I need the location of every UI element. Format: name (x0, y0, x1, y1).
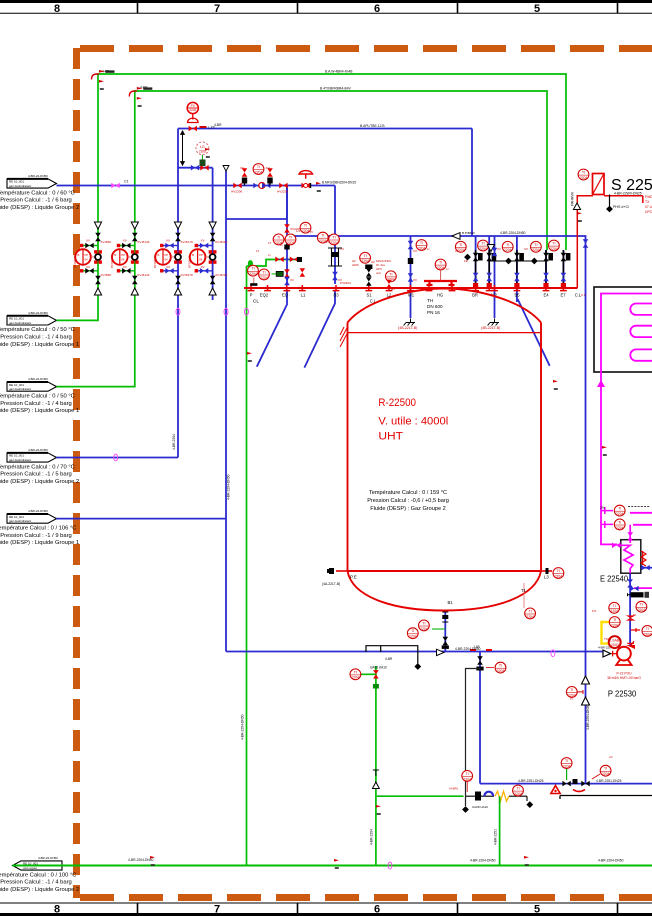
W1 dome anchor (404, 319, 415, 326)
left arrow black on y236 (452, 233, 460, 240)
svg-text:2½: 2½ (600, 506, 605, 510)
mini station bubbles (478, 240, 489, 251)
off-page connector label 3 (0/50C) (7, 382, 57, 391)
red nozzle tees on header (248, 285, 567, 291)
pump instrument bubbles (609, 617, 620, 628)
svg-text:Fluide (DESP) : Gaz Groupe 2: Fluide (DESP) : Gaz Groupe 2 (370, 506, 446, 512)
exchanger red hatch (641, 551, 646, 566)
svg-text:B: B (114, 253, 116, 257)
svg-text:XV: XV (123, 239, 127, 243)
svg-text:Pression Calcul : -1 / 9 barg: Pression Calcul : -1 / 9 barg (0, 533, 72, 539)
magenta lines to right edge (630, 513, 652, 588)
header drop valve set E6 (514, 250, 524, 288)
svg-text:Température Calcul : 0 / 70 °C: Température Calcul : 0 / 70 °C (0, 464, 75, 470)
svg-text:B.P/BFW: B.P/BFW (462, 231, 475, 235)
svg-text:6: 6 (374, 904, 380, 916)
svg-text:FWD: FWD (645, 195, 652, 199)
svg-text:Pression Calcul : -0,6 / +0,5: Pression Calcul : -0,6 / +0,5 barg (367, 498, 449, 504)
svg-text:XV: XV (340, 247, 344, 251)
bubble pair EQ (248, 265, 259, 276)
svg-text:4-BR-22-DN50: 4-BR-22-DN50 (28, 448, 48, 452)
black regulator (475, 792, 481, 801)
pipe blue header y=185.5 (label1 to B3 riser) (57, 186, 336, 285)
svg-text:W1: W1 (408, 293, 415, 298)
pipe green branch y=796 (376, 795, 464, 797)
svg-text:XV-B212: XV-B212 (215, 273, 227, 277)
svg-text:2206: 2206 (189, 108, 196, 112)
svg-text:UA08 UA10: UA08 UA10 (472, 805, 488, 809)
magenta coil in enclosure (601, 294, 652, 384)
filter vent triangle (573, 203, 580, 210)
L1 valve (297, 257, 302, 262)
svg-text:C.L: C.L (581, 293, 586, 297)
T1 thermowell line (523, 583, 525, 608)
double blue valve with spectacle (253, 183, 261, 189)
red riser flag (577, 212, 582, 222)
svg-text:PI: PI (310, 230, 313, 234)
svg-text:gaz deshidratant: gaz deshidratant (9, 519, 31, 523)
svg-text:gaz deshidratant: gaz deshidratant (9, 321, 31, 325)
valve station 3 x=178 (155, 222, 182, 295)
svg-text:c/c: c/c (609, 755, 613, 759)
svg-text:L3: L3 (544, 575, 549, 580)
svg-text:2206: 2206 (352, 263, 359, 267)
pump suction arrow (603, 650, 611, 657)
svg-text:LI: LI (268, 253, 271, 257)
svg-text:P: P (250, 293, 253, 298)
bubble above green branch (462, 771, 473, 782)
svg-text:4-BR-2204-DN50: 4-BR-2204-DN50 (240, 714, 244, 740)
svg-text:S1: S1 (366, 293, 372, 298)
svg-text:XV: XV (201, 239, 205, 243)
pipe green manifold jog (247, 260, 300, 267)
svg-text:V. utile : 4000l: V. utile : 4000l (378, 416, 448, 428)
svg-text:LI: LI (455, 249, 458, 253)
pump red note (607, 672, 641, 681)
svg-text:PN 16: PN 16 (427, 310, 440, 315)
dashed instrument bubble LG (196, 142, 209, 155)
svg-text:PP: PP (165, 253, 169, 257)
pipe blue riser x=178 (to label4) (57, 129, 179, 458)
svg-text:LG: LG (200, 145, 205, 149)
svg-text:LT: LT (268, 241, 271, 245)
top grid numbers 8 7 6 5 (54, 3, 540, 15)
svg-text:XV-B212: XV-B212 (215, 240, 227, 244)
valve station 1 x=98 (75, 222, 102, 295)
pipe blue W1 nozzle line (410, 236, 412, 318)
filter red piping (577, 196, 643, 288)
svg-text:gaz deshidratant: gaz deshidratant (9, 458, 31, 462)
vessel tag text R-22500 (378, 397, 448, 443)
svg-text:04: 04 (199, 258, 203, 262)
vessel bottom dish (348, 571, 542, 611)
vessel max level line (348, 332, 542, 334)
svg-text:TH: TH (427, 298, 433, 303)
svg-text:4-BR: 4-BR (214, 123, 222, 127)
svg-text:4-BR-2204-DN50: 4-BR-2204-DN50 (586, 704, 590, 730)
svg-text:(4-BR): (4-BR) (449, 787, 458, 791)
svg-text:4-BR-2251: 4-BR-2251 (493, 829, 497, 845)
exchanger coil magenta (617, 525, 633, 573)
corner flag green1 (92, 70, 115, 80)
vessel L2 nozzle right (541, 570, 552, 572)
svg-text:XV: XV (86, 265, 90, 269)
svg-text:4-BR-22-DN50: 4-BR-22-DN50 (38, 856, 58, 860)
battery-limit dashed border left (73, 48, 80, 898)
svg-text:Température Calcul : 0 / 50 °C: Température Calcul : 0 / 50 °C (0, 327, 75, 333)
svg-text:EQ: EQ (282, 293, 289, 298)
svg-text:unit: unit (376, 271, 381, 275)
level hatch mark (340, 327, 348, 347)
battery-limit dashed border top (80, 45, 652, 52)
pipe green line 2 (label3 to E4 station) (57, 91, 548, 387)
instrument diagonal lines left of vessel (257, 290, 335, 368)
funnel on drop 491 (487, 245, 494, 252)
svg-text:E 22540: E 22540 (600, 574, 628, 584)
svg-text:04: 04 (85, 258, 89, 262)
svg-text:XV: XV (290, 278, 294, 282)
L2 manual note (376, 259, 391, 275)
extra red text scatter (268, 230, 468, 282)
svg-text:L1: L1 (301, 293, 306, 298)
svg-text:XV-B178: XV-B178 (181, 273, 193, 277)
pipe blue riser x=287 (EQ2) (286, 186, 288, 285)
outlet black valve (443, 637, 449, 645)
svg-text:1/2: 1/2 (296, 229, 301, 233)
svg-text:PP: PP (85, 253, 89, 257)
black tee fitting below exchanger (628, 592, 650, 598)
XV symbols above header (242, 168, 273, 176)
svg-text:4-BR-22-DN50: 4-BR-22-DN50 (28, 509, 48, 513)
W1 riser valves (408, 241, 414, 249)
battery-limit dashed border bottom (80, 894, 652, 901)
black syphon loop under line (366, 646, 418, 664)
svg-text:8: 8 (54, 904, 60, 916)
svg-text:7: 7 (214, 904, 220, 916)
svg-text:gaz deshidratant: gaz deshidratant (9, 387, 31, 391)
svg-text:4-BR-2251-DN25: 4-BR-2251-DN25 (596, 779, 622, 783)
funnel top of x226 riser (223, 166, 229, 172)
svg-text:07.44: 07.44 (645, 205, 652, 209)
control valve on header x=305.7 (299, 171, 313, 189)
svg-text:4-BR-2204-DN50: 4-BR-2204-DN50 (455, 647, 481, 651)
svg-text:Fluide (DESP) : Liquide Groupe: Fluide (DESP) : Liquide Groupe 2 (0, 205, 79, 211)
svg-text:BF09040: BF09040 (188, 255, 192, 268)
pipe green line 1 (label2 to E7 station) (57, 74, 567, 320)
svg-text:PP: PP (199, 253, 203, 257)
svg-text:5: 5 (534, 3, 540, 15)
svg-text:Fluide (DESP) : Liquide Groupe: Fluide (DESP) : Liquide Groupe 1 (0, 408, 79, 414)
magenta ovals (224, 308, 228, 315)
svg-text:XV-B134: XV-B134 (137, 240, 149, 244)
svg-text:LI: LI (280, 243, 283, 247)
svg-text:Pression Calcul : -1 / 4 barg: Pression Calcul : -1 / 4 barg (0, 401, 72, 407)
svg-text:Fluide (DESP) : Liquide Groupe: Fluide (DESP) : Liquide Groupe 2 (0, 887, 79, 893)
svg-text:Pression Calcul : -1 / 4 barg: Pression Calcul : -1 / 4 barg (0, 335, 72, 341)
svg-text:XV-B98: XV-B98 (101, 240, 112, 244)
header drop valve set E4 (543, 250, 553, 288)
pipe green riser x=246.5 (manifold to bottom header) (246, 266, 248, 866)
valve station 4 x=212.6 (190, 222, 217, 295)
blue valve after corner (583, 239, 589, 247)
manhole text TH DN600 PN16 (427, 298, 443, 315)
svg-text:E7: E7 (560, 293, 566, 298)
vessel PE nozzle left (336, 570, 348, 572)
magenta supply line down to E22540 (601, 383, 617, 544)
svg-text:DN 600: DN 600 (427, 304, 443, 309)
HG bubble (435, 259, 446, 270)
enclosure box (tracing panel) (594, 287, 652, 372)
svg-text:XV: XV (497, 247, 501, 251)
svg-text:LI: LI (427, 247, 430, 251)
svg-text:AV: AV (371, 260, 375, 264)
svg-text:8: 8 (54, 3, 60, 15)
svg-text:B.A.W-4BR4-Im4B: B.A.W-4BR4-Im4B (325, 70, 353, 74)
pump P 22530 (612, 641, 635, 665)
svg-text:P.E: P.E (350, 575, 357, 580)
svg-text:4-BR-2204-DN50: 4-BR-2204-DN50 (500, 231, 526, 235)
valve station 2 x=134.8 (112, 222, 139, 295)
svg-text:04: 04 (121, 258, 125, 262)
svg-text:XV: XV (123, 265, 127, 269)
svg-text:36 m3/h HMT=30 barG: 36 m3/h HMT=30 barG (607, 676, 641, 680)
svg-text:XV: XV (86, 239, 90, 243)
svg-text:XV: XV (413, 278, 417, 282)
svg-text:UHT: UHT (378, 431, 403, 443)
magenta down arrow (597, 380, 605, 387)
header drop valve set B5 (486, 250, 496, 288)
svg-text:TI: TI (570, 697, 573, 701)
svg-text:Température Calcul : 0 / 106 °: Température Calcul : 0 / 106 °C (0, 525, 76, 531)
pipe green bottom header y=865.5 (13, 865, 652, 867)
red flag + line label (316, 182, 321, 192)
svg-text:4-BR-2204-DN50: 4-BR-2204-DN50 (598, 859, 624, 863)
svg-text:4-BR-2204-DN50: 4-BR-2204-DN50 (128, 858, 154, 862)
svg-text:(4B-22LT-B): (4B-22LT-B) (398, 326, 417, 330)
svg-text:2540: 2540 (611, 643, 619, 647)
off-page connector label 4 (0/70C) (7, 453, 57, 462)
svg-text:XV-B134: XV-B134 (137, 273, 149, 277)
svg-text:Pression Calcul : -1 / 4 barg: Pression Calcul : -1 / 4 barg (0, 880, 72, 886)
outlet bubbles (419, 620, 430, 631)
tiny line labels (102, 70, 624, 863)
B3 riser fittings (328, 248, 342, 266)
right drop assembly x=480 (477, 656, 483, 664)
small red hook (573, 790, 585, 792)
red valve HV on header (233, 183, 241, 189)
red L marks on main line (470, 649, 492, 651)
svg-text:Fluide (DESP) : Liquide Groupe: Fluide (DESP) : Liquide Groupe 1 (0, 540, 79, 546)
top border band (0, 2, 652, 14)
svg-text:PHS d+Cl: PHS d+Cl (613, 205, 629, 209)
svg-text:TSA: TSA (604, 637, 610, 641)
instrument diagonal right shoulder (518, 299, 550, 366)
filter instrument bubble TX2259 (578, 169, 589, 180)
pipe blue stub y=167.7 (178, 168, 213, 300)
vessel bottom seam line (348, 570, 542, 572)
manhole TH on header (424, 281, 457, 285)
header drop valve set E7 (561, 250, 571, 288)
svg-text:Température Calcul : 0 / 60 °C: Température Calcul : 0 / 60 °C (0, 190, 75, 196)
svg-text:BF09040: BF09040 (153, 255, 157, 268)
pipe red distribution header y=288 (244, 287, 578, 289)
svg-text:4-BR-2204: 4-BR-2204 (172, 434, 176, 450)
dashed label above magenta (628, 506, 650, 508)
svg-text:4-BR-22-DN50: 4-BR-22-DN50 (28, 311, 48, 315)
svg-text:(4B-22LT-B): (4B-22LT-B) (481, 326, 500, 330)
bubble trio B3 (300, 222, 311, 233)
exchanger blue fittings (627, 579, 638, 591)
svg-text:C1: C1 (124, 180, 129, 184)
svg-text:XV: XV (166, 239, 170, 243)
svg-text:BF09040: BF09040 (110, 255, 114, 268)
svg-text:TX: TX (645, 200, 650, 204)
black block valve 1 (242, 178, 247, 184)
pipe blue mini risers to red header (476, 236, 564, 302)
svg-text:HV: HV (391, 287, 395, 291)
svg-text:(4A-22LT-B): (4A-22LT-B) (322, 582, 340, 586)
svg-text:Pression Calcul : -1 / 5 barg: Pression Calcul : -1 / 5 barg (0, 472, 72, 478)
filter drain black line (609, 195, 611, 207)
svg-text:Température Calcul : 0 / 100 °: Température Calcul : 0 / 100 °C (0, 872, 76, 878)
pipe blue vessel outlet B1 (444, 612, 446, 652)
svg-text:B1: B1 (448, 600, 454, 605)
off-page connector label 2 (0/50C) (7, 316, 57, 325)
yellow interlock bracket (602, 622, 613, 644)
svg-text:PP: PP (121, 253, 125, 257)
flag on green riser (247, 352, 252, 362)
svg-text:CL: CL (253, 299, 259, 305)
svg-text:LI: LI (446, 267, 449, 271)
svg-text:B.4TX/BFRBRA-B4V: B.4TX/BFRBRA-B4V (320, 87, 352, 91)
BR bubble + fitting (455, 241, 466, 252)
svg-text:XV-B98: XV-B98 (101, 273, 112, 277)
bubbles near exchanger bottom (609, 602, 620, 613)
svg-text:6: 6 (374, 3, 380, 15)
filter red notes (645, 195, 652, 214)
svg-text:04: 04 (165, 258, 169, 262)
vessel design data text (367, 490, 449, 512)
svg-text:UA08 UA10: UA08 UA10 (370, 666, 387, 670)
svg-text:BF09040: BF09040 (73, 255, 77, 268)
safety triangle red (551, 786, 560, 794)
svg-text:4-BR-2204: 4-BR-2204 (370, 829, 374, 845)
svg-text:4-BR: 4-BR (385, 657, 393, 661)
svg-text:XV-B178: XV-B178 (181, 240, 193, 244)
valves on y=167.7 stub (191, 165, 199, 171)
black utility line below (560, 796, 652, 800)
svg-text:Température Calcul : 0 / 159 °: Température Calcul : 0 / 159 °C (369, 490, 447, 496)
S1 actuated valve (360, 252, 371, 263)
svg-text:Température Calcul : 0 / 50 °C: Température Calcul : 0 / 50 °C (0, 393, 75, 399)
svg-text:Fluide (DESP) : Liquide Groupe: Fluide (DESP) : Liquide Groupe 1 (0, 342, 79, 348)
svg-text:LSAB: LSAB (610, 639, 620, 643)
magenta instrument stubs (601, 507, 613, 528)
svg-text:4-BR-2251-DN25: 4-BR-2251-DN25 (518, 779, 544, 783)
svg-text:B.APL/TBE-12.B: B.APL/TBE-12.B (360, 124, 385, 128)
dimension line black (181, 131, 185, 165)
bottom grid numbers 8 7 6 5 (54, 904, 540, 916)
exchanger E 22540 body (621, 540, 641, 574)
control valve PV on y=128.5 (187, 102, 216, 131)
svg-text:EQ2: EQ2 (260, 293, 269, 298)
M2 riser valve (492, 248, 498, 256)
off-page connector label 1 (0/60C) (7, 179, 57, 188)
svg-text:4-BR-22-DN50: 4-BR-22-DN50 (28, 174, 48, 178)
svg-text:Pression Calcul : -1 / 6 barg: Pression Calcul : -1 / 6 barg (0, 198, 72, 204)
black link line between drops (489, 260, 546, 262)
svg-text:4-BR-22WV-DN25: 4-BR-22WV-DN25 (614, 191, 642, 195)
header drop valve set BR (473, 250, 483, 288)
butterfly valve on pump riser (626, 615, 636, 620)
svg-text:T1: T1 (521, 588, 527, 593)
svg-text:E4: E4 (543, 293, 549, 298)
svg-text:FO: FO (592, 609, 597, 613)
pipe blue exchanger to pump (629, 573, 631, 646)
filter S 2259 body (593, 174, 605, 195)
pipe blue M2 nozzle line (494, 236, 496, 318)
svg-text:B: B (192, 253, 194, 257)
svg-text:4-BR-22-DN50: 4-BR-22-DN50 (28, 377, 48, 381)
svg-text:P 22530: P 22530 (608, 689, 637, 699)
pipe blue line y=128.5 (178, 129, 472, 237)
svg-text:BR: BR (472, 293, 478, 298)
pipe blue header y=236 to long riser x=585.5 (287, 236, 586, 784)
drain valve red on green riser (373, 670, 379, 678)
pipe blue label5 run to main bottom line (57, 171, 605, 652)
svg-text:FE: FE (464, 259, 468, 263)
svg-text:Fluide (DESP) : Liquide Groupe: Fluide (DESP) : Liquide Groupe 2 (0, 479, 79, 485)
check valve near pump (626, 645, 635, 649)
svg-text:4-BR-2204-DN50: 4-BR-2204-DN50 (227, 474, 231, 500)
pipe blue drop x=480 and bottom branch y=783.6 (480, 652, 652, 784)
svg-text:LT: LT (256, 249, 259, 253)
svg-text:gaz deshidratant: gaz deshidratant (9, 184, 31, 188)
green drop tick (499, 796, 501, 803)
riser EQ2 valves (284, 224, 290, 232)
svg-text:7: 7 (214, 3, 220, 15)
flag on magenta riser (602, 446, 607, 456)
C1 marker on header (111, 183, 119, 189)
M2 dome anchor (488, 319, 499, 326)
flow arrows on main line x=585.5 (582, 676, 590, 684)
extra tiny red texts manifold (256, 170, 586, 297)
bottom border band (0, 903, 652, 915)
svg-text:B5: B5 (514, 293, 520, 298)
orange zigzag (495, 791, 509, 801)
extra tiny red texts right side (570, 609, 636, 759)
svg-text:PI: PI (633, 613, 636, 617)
svg-text:PT: PT (326, 240, 330, 244)
svg-text:HV2209: HV2209 (277, 190, 288, 194)
svg-text:XV: XV (524, 247, 528, 251)
vessel R-22500 shell (348, 289, 542, 572)
svg-text:XV: XV (413, 249, 417, 253)
red valve 2 on header (279, 183, 287, 189)
corner flag green2 (129, 87, 152, 97)
svg-text:4-BR-2204-DN50: 4-BR-2204-DN50 (470, 859, 496, 863)
svg-text:FW-WVR: FW-WVR (571, 192, 575, 206)
riser flags (99, 80, 104, 90)
svg-text:B.MFG/DBN2204-DN15: B.MFG/DBN2204-DN15 (322, 181, 356, 185)
svg-text:XV: XV (338, 278, 342, 282)
off-page connector label 5 (0/106C) (7, 514, 57, 523)
pipe green vessel drain riser x=375.9 (361, 666, 376, 866)
svg-text:HG: HG (437, 293, 443, 298)
svg-text:PI: PI (300, 170, 303, 174)
svg-text:XV: XV (201, 265, 205, 269)
svg-text:UPC: UPC (645, 210, 652, 214)
